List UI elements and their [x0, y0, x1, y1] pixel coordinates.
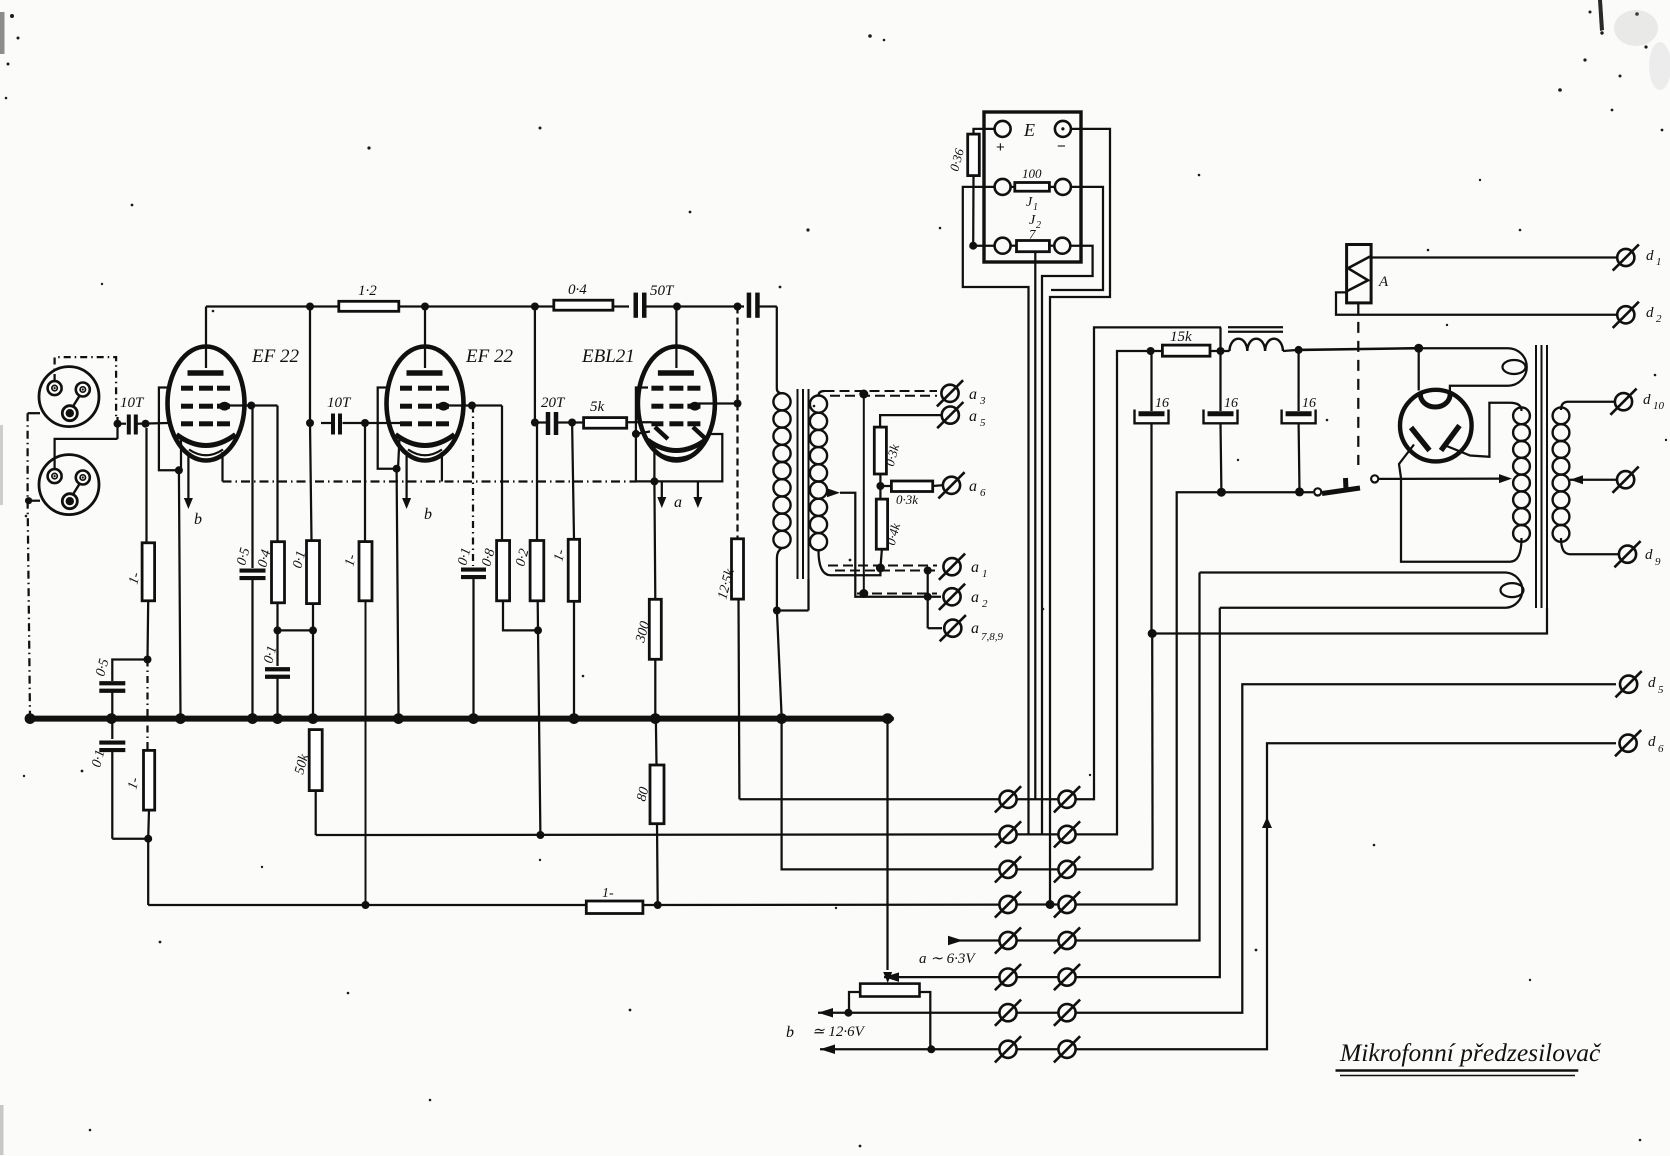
V3 bracket and diode box	[636, 388, 722, 482]
terminal row 5	[999, 932, 1016, 949]
filament left lead	[1399, 445, 1510, 562]
svg-text:A: A	[1378, 274, 1389, 290]
secondary bottom to a1	[831, 568, 880, 575]
resistor 1- (V1 grid leak upper)	[145, 428, 147, 543]
V2 g3-cathode bracket	[378, 388, 397, 469]
wire V1 plate node down	[309, 307, 311, 424]
dashed line fuse to switch	[1357, 303, 1359, 465]
input node	[116, 417, 118, 439]
V2 cathode lead to bus	[398, 438, 400, 469]
tube V1 EF22	[168, 347, 245, 461]
heater supply arrows a 6.3V	[948, 936, 963, 946]
riser row5 to 6.3V winding	[1076, 573, 1200, 941]
svg-text:16: 16	[1224, 396, 1238, 411]
V1 lead to heater dash line	[221, 452, 223, 482]
wire fuse to d1	[1371, 256, 1616, 258]
svg-text:2: 2	[982, 598, 988, 610]
wire secondary top to a3	[825, 390, 938, 392]
resistor 5k	[584, 418, 627, 429]
svg-text:b: b	[786, 1024, 794, 1041]
resistor 1- (below bus)	[144, 750, 155, 810]
terminal a7,8,9	[944, 620, 961, 637]
link a1-a2-a789	[927, 570, 929, 628]
resistor 0.36	[974, 129, 995, 134]
core tail to common rail	[1152, 608, 1547, 634]
capacitor 16 (3)	[1297, 350, 1299, 411]
svg-text:+: +	[996, 139, 1005, 156]
svg-text:16: 16	[1302, 396, 1316, 411]
svg-text:a: a	[969, 386, 977, 403]
resistor 0.1 (V1 coupling chain)	[310, 423, 312, 541]
svg-text:d: d	[1645, 547, 1653, 563]
wire plate node to coupling cap	[677, 305, 744, 307]
resistor 80	[655, 721, 658, 765]
terminal d2	[1617, 306, 1634, 323]
resistor 100	[995, 179, 1011, 195]
svg-text:5: 5	[1658, 684, 1664, 696]
svg-text:7,8,9: 7,8,9	[981, 631, 1004, 643]
svg-text:15k: 15k	[1170, 329, 1192, 345]
V2 heater b arrow	[405, 456, 407, 498]
V1 heater b arrow	[187, 456, 189, 498]
svg-text:EF 22: EF 22	[251, 346, 299, 367]
wire to V1 grid	[137, 422, 169, 425]
output transformer secondary winding	[819, 391, 825, 396]
ground dash-dot line down left edge	[26, 413, 28, 501]
tube V3 EBL21	[638, 347, 715, 461]
resistor 0.4	[276, 406, 278, 542]
capacitor 50T	[634, 293, 639, 318]
wire node to coupling cap 0.5	[112, 660, 147, 682]
svg-text:5k: 5k	[590, 399, 605, 415]
secondary centre tap to a2	[827, 488, 840, 497]
capacitor 0.5 (left)	[99, 681, 125, 685]
riser row6 to 6.3V winding	[1076, 608, 1220, 977]
fuse row bottom	[995, 238, 1011, 254]
svg-text:10: 10	[1653, 400, 1665, 412]
mains switch	[1314, 488, 1321, 495]
V1 plate wire	[205, 307, 207, 369]
resistor 0.4 (coupling)	[554, 300, 613, 310]
resistor 15k	[1162, 345, 1210, 356]
resistor 12.5k	[736, 404, 738, 539]
svg-text:16: 16	[1155, 396, 1169, 411]
capacitor 0.1 (below bus left)	[111, 721, 113, 739]
wire down to bias line	[147, 839, 149, 905]
capacitor 16 (1)	[1150, 351, 1152, 411]
V1 cathode lead to bus	[180, 438, 182, 470]
HT wire to rectifier	[1299, 348, 1419, 350]
svg-text:d: d	[1646, 305, 1654, 321]
resistor 300	[653, 481, 656, 599]
wire mic1 pin to left ground line	[28, 412, 40, 414]
terminal a3	[941, 385, 958, 402]
svg-text:−: −	[1057, 138, 1066, 155]
power transformer core	[1535, 345, 1537, 608]
svg-text:EF 22: EF 22	[465, 346, 513, 367]
capacitor 0.1 (V1 plate chain)	[276, 630, 278, 666]
dash line grid-leak chain through bus	[146, 660, 148, 751]
svg-text:3: 3	[979, 395, 986, 407]
wire to d10	[1568, 401, 1614, 403]
link a3 line to a2 line	[859, 390, 868, 399]
terminal d5	[1620, 676, 1637, 693]
V2 screen wire	[446, 404, 472, 406]
common rail riser row4	[1076, 492, 1314, 904]
V2 plate node	[424, 307, 426, 369]
svg-text:6: 6	[980, 487, 986, 499]
V3 cathode lead	[653, 444, 655, 481]
row1 left wire	[739, 798, 999, 800]
ground bus	[30, 716, 891, 722]
terminal d1	[1617, 249, 1634, 266]
resistor 0.3k (horizontal)	[880, 485, 891, 487]
terminal a5	[880, 415, 941, 427]
svg-text:b: b	[424, 506, 432, 523]
E wiring: left wrap to bundle	[963, 187, 1029, 835]
resistor 1.2 (V1 plate load)	[339, 301, 399, 311]
terminal row 8	[999, 1041, 1016, 1058]
resistor 0.4k (vertical)	[876, 499, 887, 549]
svg-text:0·4: 0·4	[568, 282, 587, 298]
resistor 1- (V3 grid leak)	[572, 423, 574, 540]
terminal row 3	[999, 861, 1016, 878]
svg-text:d: d	[1648, 734, 1656, 750]
power transformer left winding (5V)	[1510, 403, 1522, 411]
riser row8 to d6	[1076, 743, 1617, 1049]
6.3V winding bottom loop	[1200, 571, 1507, 573]
riser row7 to d5	[1076, 684, 1617, 1013]
rectifier tube	[1400, 390, 1472, 462]
resistor 1- (V2 grid leak)	[364, 423, 366, 542]
output transformer primary winding	[776, 307, 778, 389]
filter box left edge / riser row1	[1076, 327, 1222, 799]
capacitor 20T	[546, 412, 551, 435]
E wiring: right wrap lower	[1042, 246, 1093, 835]
terminal -	[1055, 121, 1071, 137]
svg-text:1: 1	[1033, 202, 1038, 213]
svg-text:1-: 1-	[602, 886, 614, 901]
terminal +	[995, 121, 1011, 137]
svg-text:0·3k: 0·3k	[896, 492, 918, 507]
shield dash-dot around mic 1	[55, 357, 117, 417]
left winding centre tap from switch	[1499, 474, 1512, 483]
svg-text:a: a	[969, 478, 977, 495]
fuse A	[1347, 245, 1372, 303]
svg-text:50T: 50T	[650, 283, 675, 299]
potentiometer	[860, 984, 919, 997]
svg-text:6: 6	[1658, 743, 1664, 755]
svg-text:9: 9	[1655, 556, 1661, 568]
resistor 1- (horizontal, bias)	[586, 901, 643, 914]
capacitor 16 (2)	[1219, 351, 1221, 411]
V1 screen wire	[227, 404, 251, 406]
svg-text:a: a	[971, 620, 979, 637]
resistor 0.3k (vertical)	[874, 427, 886, 474]
svg-text:10T: 10T	[120, 395, 145, 411]
svg-text:2: 2	[1656, 313, 1662, 325]
terminal d6	[1620, 735, 1637, 752]
coupling capacitor to output transformer	[747, 293, 752, 318]
svg-text:1·2: 1·2	[358, 283, 377, 299]
resistor 50k	[309, 730, 322, 791]
riser row2 to 15k	[1076, 351, 1151, 834]
V3 screen tap	[698, 402, 738, 404]
svg-text:100: 100	[1022, 166, 1042, 181]
svg-text:5: 5	[980, 417, 986, 429]
terminal row 6	[999, 969, 1016, 986]
V3 plate lead	[675, 307, 677, 369]
V3 heater a arrows	[661, 481, 663, 498]
microphone connector 1	[39, 367, 99, 427]
svg-text:a: a	[971, 589, 979, 606]
primary bottom stub to core	[777, 609, 809, 611]
svg-text:10T: 10T	[327, 395, 352, 411]
terminal a1	[943, 558, 960, 575]
coupling chain node wire	[278, 629, 314, 631]
wire fuse to d2	[1336, 292, 1616, 314]
microphone connector 2	[39, 455, 99, 515]
bias line wire	[148, 904, 586, 906]
HT winding top loop	[1419, 347, 1508, 349]
svg-text:E: E	[1023, 120, 1035, 140]
V1 g3-cathode bracket	[159, 388, 179, 471]
wire 50k to terminal row 2	[316, 833, 1000, 836]
capacitor 10T (input)	[127, 415, 131, 435]
terminal row 2	[999, 826, 1016, 843]
capacitor 10T (interstage)	[331, 414, 335, 435]
E wiring: right wrap top	[1050, 129, 1110, 905]
wire bus end down to pot	[886, 719, 888, 970]
E wiring: bundle line 2	[1034, 252, 1036, 799]
wire mic2 hot up to input node	[55, 439, 118, 469]
terminal a2	[943, 588, 960, 605]
battery block E	[984, 112, 1081, 262]
terminal row 7	[999, 1004, 1016, 1021]
scan speckles (decorative)	[10, 14, 14, 18]
tube V2 EF22	[387, 347, 464, 461]
riser row3 joins cap16-1 line	[1076, 868, 1153, 870]
svg-text:d: d	[1648, 675, 1656, 691]
svg-text:a: a	[674, 494, 682, 511]
power transformer right winding	[1561, 402, 1568, 410]
terminal row 4	[999, 896, 1016, 913]
svg-text:2: 2	[1036, 220, 1041, 231]
svg-text:1: 1	[1656, 256, 1662, 268]
svg-text:d: d	[1643, 392, 1651, 408]
resistor 0.2	[534, 307, 536, 423]
E wiring: right wrap middle	[1051, 187, 1103, 290]
primary bottom to bus and terminal row 3	[777, 611, 782, 717]
anode lead	[1418, 348, 1420, 390]
wire to a2	[857, 593, 937, 595]
svg-text:d: d	[1646, 248, 1654, 264]
svg-text:a ∼ 6·3V: a ∼ 6·3V	[919, 951, 976, 967]
wire to d9	[1570, 553, 1618, 555]
heater dash-dot line a	[223, 480, 637, 482]
corner scan smudges	[1598, 0, 1604, 31]
svg-text:EBL21: EBL21	[581, 346, 635, 367]
right winding centre tap	[1570, 475, 1583, 484]
choke (iron core inductor)	[1228, 326, 1283, 328]
svg-text:b: b	[194, 511, 202, 528]
svg-text:a: a	[971, 559, 979, 576]
svg-text:a: a	[969, 408, 977, 425]
supply b 12.6V row8	[820, 1045, 835, 1055]
terminal a6	[943, 477, 960, 494]
transformer core	[797, 389, 799, 579]
svg-text:J: J	[1026, 195, 1033, 210]
terminal row 1	[999, 791, 1016, 808]
capacitor 0.1 (V2 screen)	[472, 406, 474, 567]
svg-text:≃ 12·6V: ≃ 12·6V	[812, 1024, 866, 1040]
V2 lead to heater dash line	[441, 452, 443, 482]
wire to a1	[828, 565, 937, 567]
filament right lead	[1443, 403, 1510, 457]
resistor 0.8	[501, 406, 503, 541]
wire mic2 pin to ground line	[28, 500, 40, 502]
supply b 12.6V row7	[818, 1008, 833, 1018]
svg-text:20T: 20T	[541, 395, 566, 411]
svg-text:1: 1	[982, 568, 988, 580]
svg-text:Mikrofonní předzesilovač: Mikrofonní předzesilovač	[1339, 1038, 1602, 1067]
capacitor 0.5 (V1 screen bypass)	[251, 406, 253, 569]
